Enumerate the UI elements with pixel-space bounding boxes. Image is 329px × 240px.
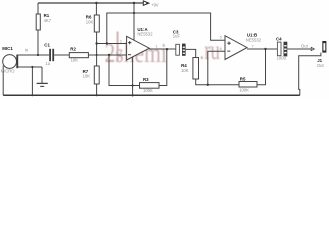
svg-text:J1: J1 xyxy=(317,58,322,63)
svg-text:4K7: 4K7 xyxy=(44,18,52,23)
svg-text:1u: 1u xyxy=(45,61,50,66)
svg-text:MIC1: MIC1 xyxy=(2,46,13,51)
svg-text:10K: 10K xyxy=(71,58,79,63)
svg-text:C1: C1 xyxy=(44,43,50,48)
svg-text:R3: R3 xyxy=(143,77,149,82)
svg-text:R2: R2 xyxy=(70,46,76,51)
svg-text:Out: Out xyxy=(301,43,309,48)
svg-text:C4: C4 xyxy=(276,37,282,42)
svg-text:7: 7 xyxy=(252,45,254,49)
svg-text:In: In xyxy=(25,47,29,52)
svg-text:10K: 10K xyxy=(83,74,91,79)
svg-text:3: 3 xyxy=(120,40,122,44)
svg-text:MICRO: MICRO xyxy=(1,69,16,74)
svg-text:10K: 10K xyxy=(181,68,189,73)
svg-text:Out: Out xyxy=(317,63,325,68)
svg-text:10K: 10K xyxy=(86,19,94,24)
svg-text:6: 6 xyxy=(220,47,222,51)
svg-text:+9V: +9V xyxy=(151,3,159,8)
svg-text:1: 1 xyxy=(156,45,158,49)
svg-text:100K: 100K xyxy=(143,88,153,93)
svg-text:5: 5 xyxy=(220,35,222,39)
svg-text:NE5532: NE5532 xyxy=(137,32,153,37)
svg-text:2: 2 xyxy=(120,51,122,55)
svg-text:R5: R5 xyxy=(240,77,246,82)
svg-text:NE5532: NE5532 xyxy=(246,37,262,42)
svg-text:1uF: 1uF xyxy=(173,34,181,39)
svg-text:100K: 100K xyxy=(239,88,249,93)
svg-text:100u: 100u xyxy=(277,56,287,61)
